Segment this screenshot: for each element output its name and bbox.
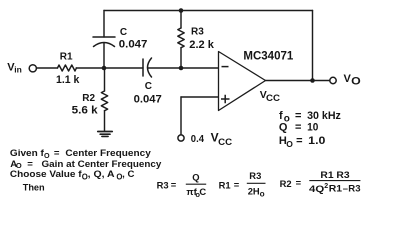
svg-text:R3: R3 [249, 170, 261, 181]
svg-text:R1: R1 [60, 52, 73, 63]
capacitor C2 curved plate [148, 58, 152, 77]
terminal Vin [29, 65, 36, 72]
resistor R3 [178, 28, 184, 48]
op-amp U1 MC34071 [219, 52, 266, 111]
svg-text:R1: R1 [329, 183, 342, 194]
capacitor C2 left plate [142, 59, 144, 76]
wire C branch lower [103, 43, 105, 68]
svg-text:R1 R3: R1 R3 [320, 169, 349, 180]
svg-text:Given f: Given f [10, 148, 45, 159]
svg-text:=: = [296, 135, 302, 147]
svg-text:=: = [54, 148, 60, 159]
node junction inverting input [179, 66, 184, 71]
terminal VO [330, 77, 336, 83]
capacitor C1 top plate [93, 36, 115, 38]
svg-text:2.2 k: 2.2 k [189, 39, 214, 51]
svg-text:R1: R1 [219, 180, 231, 191]
svg-text:C: C [145, 81, 152, 92]
formula R3 fraction bar [186, 183, 206, 185]
svg-text:O: O [351, 76, 361, 88]
svg-text:C: C [199, 186, 206, 197]
svg-text:30 kHz: 30 kHz [307, 110, 341, 122]
node junction input [102, 66, 107, 71]
svg-text:=: = [295, 121, 301, 133]
svg-text:=: = [27, 159, 33, 170]
svg-text:CC: CC [218, 137, 233, 147]
svg-text:R2: R2 [82, 93, 95, 104]
formula R1 fraction bar [247, 182, 266, 184]
ground [98, 131, 112, 133]
svg-text:5.6 k: 5.6 k [72, 105, 99, 117]
svg-text:=: = [296, 177, 302, 188]
formula R2 fraction bar [309, 180, 360, 182]
svg-text:Choose Value f: Choose Value f [10, 169, 83, 180]
wire top C branch upper [103, 11, 105, 38]
wire top feedback horizontal [104, 10, 313, 12]
svg-text:=: = [171, 179, 177, 190]
svg-text:MC34071: MC34071 [243, 50, 293, 62]
svg-text:2H: 2H [248, 185, 260, 196]
svg-text:1.1 k: 1.1 k [56, 74, 80, 86]
op-amp plus sign [221, 95, 230, 103]
svg-text:0.047: 0.047 [119, 39, 148, 51]
svg-text:0.047: 0.047 [134, 94, 162, 106]
capacitor C1 curved plate [94, 43, 115, 47]
svg-text:–: – [343, 183, 348, 194]
svg-text:R3: R3 [348, 183, 360, 194]
svg-text:Q: Q [192, 172, 199, 183]
svg-text:, C: , C [122, 169, 134, 180]
wire output [266, 80, 330, 82]
wire R2 to ground [104, 111, 106, 131]
node junction top R3 [179, 8, 184, 13]
svg-text:Q: Q [279, 121, 288, 133]
svg-text:Gain at Center Frequency: Gain at Center Frequency [42, 159, 162, 170]
svg-text:R2: R2 [280, 178, 292, 189]
svg-text:R3: R3 [191, 26, 204, 37]
wire Vin to R1 [37, 67, 58, 69]
svg-text:C: C [120, 27, 127, 38]
svg-text:=: = [295, 110, 301, 122]
svg-text:CC: CC [266, 93, 281, 103]
svg-text:o: o [260, 189, 265, 198]
svg-text:Center Frequency: Center Frequency [65, 148, 151, 159]
svg-text:f: f [279, 110, 283, 122]
svg-text:, Q, A: , Q, A [88, 169, 115, 180]
svg-text:O: O [286, 139, 293, 149]
wire feedback vertical right [312, 11, 314, 81]
wire noninverting input horizontal [181, 96, 219, 98]
wire series C to op-amp [148, 67, 219, 69]
svg-text:4Q: 4Q [309, 183, 324, 194]
svg-text:2: 2 [324, 183, 328, 190]
node junction output feedback [310, 78, 315, 83]
wire R3 branch lower [180, 48, 182, 68]
svg-text:0.4: 0.4 [191, 133, 204, 145]
svg-text:10: 10 [307, 121, 318, 133]
wire R2 branch upper [104, 68, 106, 91]
resistor R1 [58, 65, 77, 71]
svg-text:1.0: 1.0 [308, 135, 325, 147]
wire noninverting input vertical [180, 97, 182, 135]
wire R3 branch upper [180, 11, 182, 29]
op-amp minus sign [222, 66, 229, 68]
terminal 0.4VCC [178, 135, 184, 141]
svg-text:Then: Then [23, 182, 45, 193]
resistor R2 [101, 91, 107, 111]
svg-text:=: = [234, 179, 240, 190]
svg-text:in: in [14, 65, 22, 75]
svg-text:R3: R3 [157, 180, 169, 191]
wire R1 to series C [76, 67, 143, 69]
